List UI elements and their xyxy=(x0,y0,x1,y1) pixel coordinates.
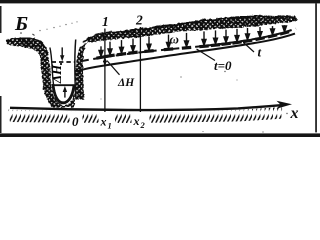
stray scan specks xyxy=(20,32,287,132)
infiltration arrow xyxy=(211,30,220,46)
frame left border lower segment xyxy=(0,96,2,133)
white gaps for axis labels xyxy=(70,113,83,128)
infiltration arrow xyxy=(164,35,173,51)
x axis line xyxy=(10,105,284,110)
trench bottom outline (U) xyxy=(53,84,74,103)
svg-text:0: 0 xyxy=(72,114,79,129)
infiltration arrow xyxy=(129,39,138,55)
svg-text:2: 2 xyxy=(135,12,143,27)
svg-text:x: x xyxy=(133,114,140,128)
t label with leader xyxy=(244,43,255,53)
svg-text:1: 1 xyxy=(108,121,112,131)
infiltration arrow xyxy=(145,37,154,53)
main dashed water-table line (t level) xyxy=(82,29,296,61)
svg-text:ω: ω xyxy=(170,32,179,47)
infiltration arrow xyxy=(200,31,209,47)
trench bottom dark mass (on the axis) xyxy=(54,92,74,107)
water level in trench: dashed initial level xyxy=(52,61,75,63)
frame top bar xyxy=(0,0,320,3)
trench right wall outline (vertical line) xyxy=(75,40,76,100)
dH dimension at line 1 xyxy=(103,57,120,75)
svg-text:Б: Б xyxy=(14,13,28,35)
svg-text:t: t xyxy=(258,45,262,60)
leader to dH label xyxy=(107,61,120,75)
frame right border xyxy=(315,3,317,132)
trench right wall speckle + surface fillet + top ground band (speckled) xyxy=(76,16,297,100)
svg-text:t=0: t=0 xyxy=(214,58,232,73)
infiltration arrow xyxy=(182,33,191,49)
water level in trench: lowered solid level xyxy=(52,84,75,86)
infiltration arrow xyxy=(233,29,242,44)
infiltration arrow xyxy=(106,42,115,58)
frame left border upper segment xyxy=(0,6,2,33)
infiltration arrow xyxy=(256,27,265,40)
infiltration arrow xyxy=(97,46,106,59)
frame bottom bar xyxy=(0,133,320,137)
infiltration arrow xyxy=(243,28,252,43)
hatch band under axis xyxy=(8,107,283,123)
vertical line 1 xyxy=(104,29,106,113)
infiltration arrow xyxy=(280,25,289,35)
svg-text:1: 1 xyxy=(102,14,109,29)
infiltration arrows with foot dashes xyxy=(97,25,289,59)
trench left wall inner outline xyxy=(50,48,61,103)
infiltration arrow xyxy=(117,40,126,56)
ground band left + trench left wall (speckled) xyxy=(6,38,67,107)
svg-text:ΔH: ΔH xyxy=(117,77,135,89)
infiltration arrow xyxy=(222,30,231,46)
dH dimension bottom arrow (up onto solid level) xyxy=(64,92,66,98)
infiltration arrow xyxy=(268,26,277,38)
vertical line 2 xyxy=(139,27,141,112)
svg-text:ΔH: ΔH xyxy=(49,64,64,84)
t=0 label with leader xyxy=(197,49,216,61)
svg-text:x: x xyxy=(290,105,299,122)
x axis arrow head xyxy=(277,101,293,109)
solid depression curve (t=0 line) xyxy=(76,34,295,72)
dH dimension top arrow (down onto dashed level) xyxy=(61,47,63,56)
faint dotted crease line xyxy=(32,21,78,36)
svg-text:2: 2 xyxy=(140,120,146,130)
degree dot of dH label xyxy=(60,63,62,65)
svg-text:x: x xyxy=(100,115,107,129)
